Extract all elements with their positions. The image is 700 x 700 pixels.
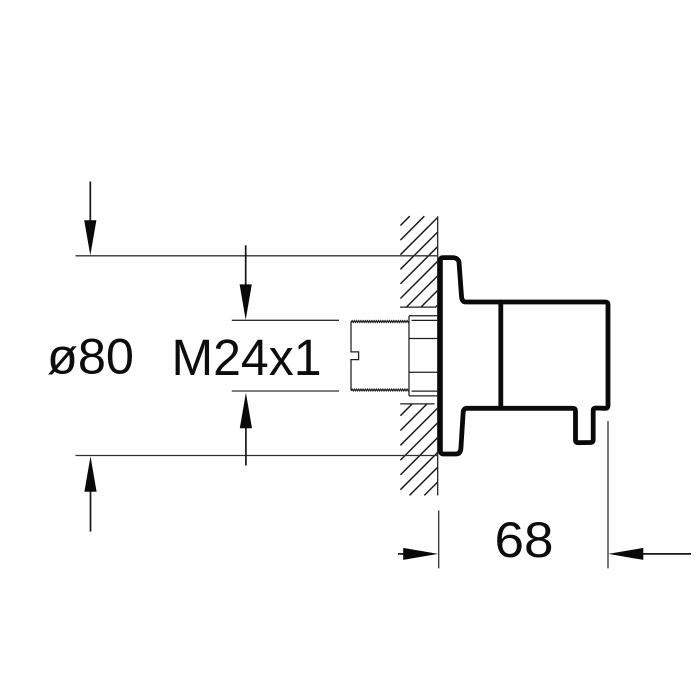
dim line 68 right head [608,548,643,560]
dim line 68 left tail [398,553,404,555]
arrow D80 top head [84,220,96,255]
arrow M24 top head [240,284,252,320]
nut bottom edge [409,395,438,397]
nut facet lower [409,371,438,373]
dim ext line D80 bottom [76,455,438,457]
wall hatch upper block [400,216,437,307]
arrow D80 top shaft [89,182,91,222]
nut top edge [409,315,438,317]
arrow D80 bottom shaft [90,491,92,532]
svg-text:68: 68 [495,512,554,568]
arrow D80 bottom head [84,456,96,492]
wall right edge [437,216,439,495]
stem left edge with slot [351,321,359,390]
arrow M24 bottom shaft [245,428,247,466]
nut facet upper [409,338,438,340]
nut top chamfer [412,319,438,321]
dim ext line D80 top [76,255,438,257]
wall hole top edge [400,306,436,308]
svg-text:M24x1: M24x1 [172,329,322,386]
dim line 68 left head [403,548,438,560]
dim line 68 right tail [643,553,691,555]
wall hole bottom edge [400,403,434,405]
dim ext line M24 bottom [232,390,339,392]
arrow M24 bottom head [240,393,252,429]
faucet outline: flange, neck, body, outlet tab [440,258,608,454]
body divider line [498,302,503,408]
dim ext line 68 left [438,511,440,569]
thread bottom crest [351,389,409,391]
dim ext line 68 right [607,421,609,568]
nut bottom chamfer [412,390,438,392]
nut left edge [408,316,410,396]
thread top crest [351,321,409,323]
arrow M24 top shaft [245,245,247,285]
svg-text:ø80: ø80 [47,329,134,385]
dim ext line M24 top [232,319,339,321]
wall hatch lower block [400,404,437,495]
